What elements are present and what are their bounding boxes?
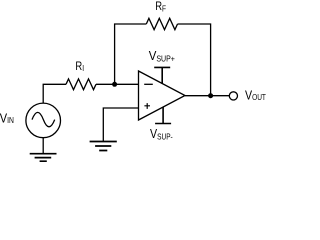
- source VIN sine wave: [32, 112, 55, 126]
- ground at non-inverting input: [90, 142, 117, 151]
- supply terminal VSUP-: [155, 107, 171, 124]
- svg-text:VOUT: VOUT: [245, 87, 266, 102]
- wire: feedback left vertical: [115, 24, 147, 84]
- supply terminal VSUP+: [154, 67, 170, 84]
- wire: non-inverting input to ground: [103, 108, 139, 141]
- wire: RI to op-amp inverting input: [96, 83, 139, 85]
- svg-text:VIN: VIN: [0, 110, 14, 125]
- op-amp minus sign: [144, 83, 153, 85]
- svg-text:VSUP-: VSUP-: [150, 126, 173, 142]
- wire: VIN source top riser and input run to RI: [43, 84, 66, 103]
- op-amp U1: [139, 71, 186, 120]
- wire: op-amp output: [185, 95, 229, 97]
- wire: feedback right down to output: [178, 24, 211, 96]
- resistor RI: [66, 79, 96, 90]
- op-amp plus sign: [144, 103, 150, 109]
- svg-text:RI: RI: [75, 60, 84, 73]
- terminal VOUT open circle: [229, 92, 237, 100]
- svg-text:VSUP+: VSUP+: [149, 48, 176, 64]
- source VIN circle: [26, 103, 61, 138]
- node: junction dot at output: [208, 93, 213, 98]
- resistor RF: [146, 18, 177, 29]
- node: junction dot at inverting input: [112, 82, 117, 87]
- ground below VIN source: [30, 154, 57, 162]
- wire: VIN source bottom riser: [42, 138, 44, 154]
- svg-text:RF: RF: [155, 0, 166, 13]
